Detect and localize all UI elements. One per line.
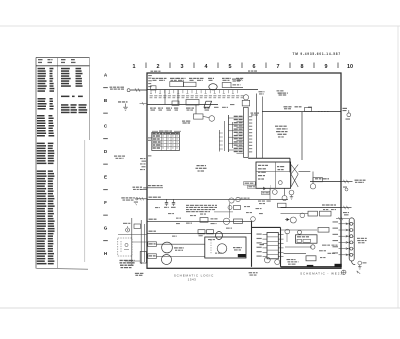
ground symbol bbox=[123, 104, 128, 111]
transistor Q6 bbox=[272, 190, 277, 195]
table rows: test point refs block 1 bbox=[38, 68, 55, 92]
filter box FL1 bbox=[306, 256, 316, 261]
wire: vertical drop 2 bbox=[177, 90, 179, 105]
filled arrow marker bbox=[263, 187, 266, 191]
wire exits border right bbox=[341, 181, 353, 183]
wire from network to Q1 bbox=[203, 117, 209, 118]
micro labels at left edge bbox=[148, 75, 152, 87]
table rows block 3 bbox=[37, 115, 54, 137]
gate generator label bbox=[232, 79, 242, 82]
svg-text:E: E bbox=[104, 175, 107, 180]
pulse ampl label bbox=[278, 93, 288, 96]
power supply box PS1 bbox=[296, 235, 318, 243]
grid row letters A-H bbox=[103, 73, 108, 257]
schematic sheet border bbox=[147, 73, 341, 268]
trig in connector circle J1 bbox=[127, 89, 130, 92]
filter capacitor C20 bbox=[164, 199, 169, 208]
fuel control label inside bbox=[148, 185, 163, 186]
power transistor Q15 bbox=[162, 242, 173, 253]
delay box U2 bbox=[184, 82, 197, 87]
rail label 15v bbox=[149, 219, 157, 220]
svg-text:3: 3 bbox=[181, 64, 184, 70]
driver box bbox=[234, 206, 241, 210]
relay dashed box K3 bbox=[118, 238, 132, 256]
osc internal divider bbox=[256, 171, 291, 173]
svg-text:F: F bbox=[104, 200, 107, 205]
labels above clock line bbox=[284, 106, 312, 109]
left feed bus of IC bbox=[228, 115, 230, 152]
shield ground symbol bbox=[358, 261, 367, 269]
faint bottom rule bbox=[0, 307, 400, 309]
resistor box R31 bbox=[198, 230, 205, 234]
fan line label bbox=[322, 204, 336, 205]
transistor Q10 bbox=[229, 198, 234, 203]
reg box on lower feed bbox=[318, 228, 329, 233]
label pump control bbox=[315, 178, 329, 179]
boxed label OSC FREQ bbox=[244, 182, 256, 189]
J3 tail hook bbox=[352, 261, 356, 264]
table rows block 2 bbox=[38, 98, 54, 110]
black ref label on reg board bbox=[238, 254, 246, 257]
IC pin ticks and pin labels bbox=[234, 116, 253, 154]
transistor Q21 bbox=[290, 217, 296, 223]
label above divider wire bbox=[233, 84, 241, 85]
hv supply box on pump line bbox=[313, 178, 323, 182]
wire: +28V rail bbox=[148, 198, 289, 200]
regulator box VR1 bbox=[200, 218, 208, 223]
pencil mark bbox=[357, 271, 360, 274]
black ref label A2A6 bbox=[335, 264, 342, 267]
fan exit hash bbox=[341, 206, 352, 216]
svg-text:SCHEMATIC - WE21: SCHEMATIC - WE21 bbox=[300, 271, 343, 275]
box on feed bbox=[134, 224, 141, 228]
divider IC strip U10 bbox=[244, 107, 249, 157]
adj box R30 bbox=[234, 219, 243, 223]
wire: power entry 1 bbox=[141, 189, 148, 191]
table rows block 5 (long) bbox=[37, 170, 55, 264]
P2 pin wires and labels bbox=[257, 234, 284, 257]
transistor Q23 bbox=[285, 229, 290, 234]
label near Q1 bbox=[182, 121, 190, 124]
wire: +15V rail bbox=[148, 220, 252, 222]
table rows right col block 1 bbox=[61, 68, 83, 87]
regulator sub-board box bbox=[205, 237, 246, 258]
dense external labels bottom-left bbox=[120, 260, 135, 268]
relay box K1 bbox=[308, 211, 318, 216]
wire: drop below osc bbox=[269, 188, 271, 199]
wire: vertical drop to Q12 bbox=[284, 189, 286, 196]
rail component labels bbox=[176, 218, 232, 229]
revision symbol circle-cross bbox=[342, 270, 346, 274]
transistor Q11 bbox=[236, 197, 240, 201]
labels right of ps area bbox=[319, 245, 338, 259]
table rows right col block 2 bbox=[61, 104, 87, 113]
svg-text:B: B bbox=[104, 98, 108, 103]
J3 top feed wire bbox=[336, 217, 349, 220]
reference table frame bbox=[36, 58, 90, 270]
dashes inside reg board bbox=[210, 240, 212, 254]
labels under -15v rail bbox=[172, 235, 203, 237]
waveform chart note bbox=[196, 165, 207, 172]
wire to Q5 bbox=[299, 171, 311, 173]
small box atop divider bbox=[242, 100, 250, 106]
internal connector P2 bbox=[267, 233, 278, 259]
relay box K2 bbox=[320, 211, 332, 216]
transistor on bus Q17 bbox=[251, 217, 256, 222]
coil box L1 bbox=[172, 101, 179, 105]
micro labels left border mid bbox=[148, 137, 151, 156]
gate box U3 bbox=[222, 83, 231, 88]
labels on 15v rail bbox=[211, 218, 218, 219]
svg-text:5: 5 bbox=[229, 64, 232, 70]
+15V feed symbols outside right border bbox=[343, 108, 351, 120]
wire: Q15 row bbox=[156, 243, 205, 245]
wire: mid feed bus bbox=[219, 130, 223, 152]
wire: right side of divider bbox=[256, 94, 258, 159]
table row right col single bbox=[61, 96, 83, 98]
crossover wires (twisted pair) bbox=[291, 165, 298, 188]
dashes right of clock line bbox=[318, 111, 330, 113]
marks under fan label bbox=[323, 209, 336, 210]
hash marks on trig wire bbox=[135, 88, 137, 91]
pass transistor Q14 (ellipse) bbox=[216, 232, 223, 240]
svg-text:10: 10 bbox=[347, 64, 353, 70]
cross wires bbox=[118, 235, 147, 262]
table rows block 4 bbox=[37, 143, 55, 165]
labels below secondary line bbox=[150, 108, 210, 111]
wire: fuel control bbox=[148, 187, 164, 189]
power transistor Q16 bbox=[162, 255, 172, 265]
counter chain block label bbox=[275, 126, 288, 138]
oscillator block A3 bbox=[256, 162, 291, 188]
heavy chassis bus bbox=[252, 221, 342, 266]
scattered part labels bottom band bbox=[155, 206, 263, 224]
external label pump control unit bbox=[355, 180, 366, 183]
svg-text:1: 1 bbox=[133, 64, 136, 70]
svg-text:7: 7 bbox=[277, 64, 280, 70]
wire: clock distribution line bbox=[262, 111, 341, 113]
transistor Q1 bbox=[209, 116, 215, 122]
rail label -15v bbox=[149, 231, 156, 232]
bottom labels row bbox=[287, 259, 299, 265]
transistor Q5 bbox=[310, 184, 315, 189]
wire: power entry 2 bbox=[136, 198, 147, 200]
wire: pump control line bbox=[310, 181, 341, 183]
labels over Q10/Q11 bbox=[241, 198, 250, 199]
labels above top chain bbox=[152, 78, 243, 81]
transistor Q18 bbox=[298, 230, 302, 234]
external label row E bbox=[114, 156, 125, 159]
boxed label below osc bbox=[262, 191, 270, 194]
J3 pin feed wires with arrows bbox=[333, 221, 350, 255]
caption right small bbox=[249, 272, 258, 275]
svg-text:4: 4 bbox=[205, 64, 208, 70]
heavy wire: divider output bbox=[248, 158, 290, 172]
filter capacitor C21 bbox=[171, 199, 176, 208]
wire: gnd entry bbox=[140, 102, 148, 105]
wire: Q16 row bbox=[156, 255, 205, 257]
transistor Q19 bbox=[264, 257, 270, 263]
wire below ps box bbox=[285, 246, 312, 248]
wire: vertical counter feed bbox=[301, 112, 303, 160]
resistor box R32 bbox=[207, 230, 214, 234]
svg-text:9: 9 bbox=[325, 64, 328, 70]
svg-text:H: H bbox=[104, 251, 108, 256]
wire: q18 drop bbox=[286, 233, 288, 242]
wire lower bbox=[284, 252, 307, 254]
rail label bbox=[149, 197, 161, 198]
wire: q10 drop bbox=[229, 203, 231, 218]
shaper trapezoid bbox=[204, 101, 212, 107]
tall box external bbox=[140, 252, 146, 264]
indicator lamp DS1 bbox=[123, 223, 130, 232]
labels right of Q15/Q16 bbox=[174, 247, 184, 251]
delay line box DL1 bbox=[186, 100, 199, 106]
connector symbols on entry 2 bbox=[136, 197, 144, 205]
misc symbols below exit bbox=[343, 187, 348, 192]
wire: main trigger line bbox=[148, 89, 259, 91]
+12V label near bus top bbox=[259, 91, 265, 94]
small box below osc bbox=[278, 203, 287, 207]
faint top rule bbox=[0, 25, 400, 27]
transistor Q13 bbox=[223, 218, 229, 224]
wire: -15V rail bbox=[148, 232, 252, 234]
second feed bus bbox=[232, 122, 234, 148]
svg-text:C: C bbox=[104, 124, 108, 129]
transistor Q6b with ground bbox=[289, 190, 294, 199]
wire: mid stub bbox=[214, 211, 233, 213]
reference table header bbox=[38, 59, 76, 63]
external connector J3 shell bbox=[349, 218, 354, 261]
transistor Q20 bbox=[275, 260, 280, 265]
wire: vertical feed b bbox=[140, 220, 142, 264]
test equipment bracket bbox=[152, 131, 181, 132]
hash marks on exit wire bbox=[344, 180, 346, 183]
wire: vertical feed a bbox=[131, 218, 133, 266]
amplifier A1 (ellipse) bbox=[209, 84, 217, 90]
wire: long vertical to bottom section bbox=[261, 97, 263, 159]
gnd label bbox=[118, 101, 128, 102]
J3 pins bbox=[350, 222, 354, 256]
series reg labels left bbox=[148, 242, 157, 259]
wire: drop to pulse network bbox=[195, 105, 197, 114]
external vehicle power label bbox=[121, 197, 138, 202]
svg-text:D: D bbox=[104, 149, 108, 154]
relay internals bbox=[121, 241, 129, 252]
external 28v power label bbox=[133, 187, 147, 190]
trig in label bbox=[110, 87, 125, 90]
hash mark symbols bbox=[140, 158, 146, 170]
wire: fan control line bbox=[281, 207, 342, 209]
svg-text:2: 2 bbox=[157, 64, 160, 70]
value labels below stubs bbox=[150, 95, 244, 98]
note paragraph bbox=[186, 205, 217, 212]
extra labels second row bbox=[214, 104, 234, 108]
wire: vertical drop from chain bbox=[164, 90, 166, 105]
wire: secondary line bbox=[148, 104, 219, 106]
svg-text:A: A bbox=[104, 73, 108, 78]
tp box on clock line bbox=[305, 108, 312, 112]
svg-text:G: G bbox=[104, 226, 108, 231]
waveform truth table bbox=[152, 132, 180, 150]
wire: lower feed bbox=[281, 229, 318, 231]
driver circle Q11a bbox=[228, 206, 232, 210]
grid column numbers 1-10 bbox=[133, 63, 354, 71]
wire: feed bus 224 bbox=[224, 121, 226, 151]
faint right page rule bbox=[397, 26, 399, 308]
wire: into divider cluster bbox=[231, 87, 243, 89]
plus gate label bbox=[251, 113, 260, 116]
board ref label above border bbox=[151, 71, 161, 72]
label to remote control bbox=[357, 238, 367, 244]
diode CR5 bbox=[285, 218, 290, 221]
transistor Q12 bbox=[282, 196, 287, 201]
bus branch wires bbox=[229, 118, 237, 150]
connector circle E5 bbox=[311, 245, 315, 249]
transistor Q2 bbox=[243, 95, 248, 100]
transistor Q22 bbox=[300, 213, 305, 218]
pulse shaper box U1 bbox=[170, 82, 184, 87]
dashed stub bbox=[270, 186, 272, 192]
wire: trig in to border bbox=[131, 89, 148, 91]
PS1 label bbox=[260, 244, 265, 245]
svg-text:6: 6 bbox=[253, 64, 256, 70]
component stubs below trigger line bbox=[150, 90, 238, 94]
caption ref left bbox=[135, 273, 144, 276]
svg-text:1543: 1543 bbox=[188, 278, 197, 282]
wire: vertical feed c bbox=[144, 224, 146, 262]
small box left of chain bbox=[151, 86, 157, 90]
svg-text:8: 8 bbox=[301, 64, 304, 70]
svg-text:TM 9-4935-601-14-587: TM 9-4935-601-14-587 bbox=[293, 52, 341, 56]
ref label right bbox=[277, 90, 284, 93]
black ref label A2A5 bbox=[307, 265, 314, 267]
wire: relay feed bbox=[281, 213, 309, 215]
network box bbox=[194, 114, 204, 119]
below-box cluster bbox=[258, 201, 271, 205]
board ref label above border right bbox=[248, 70, 257, 71]
